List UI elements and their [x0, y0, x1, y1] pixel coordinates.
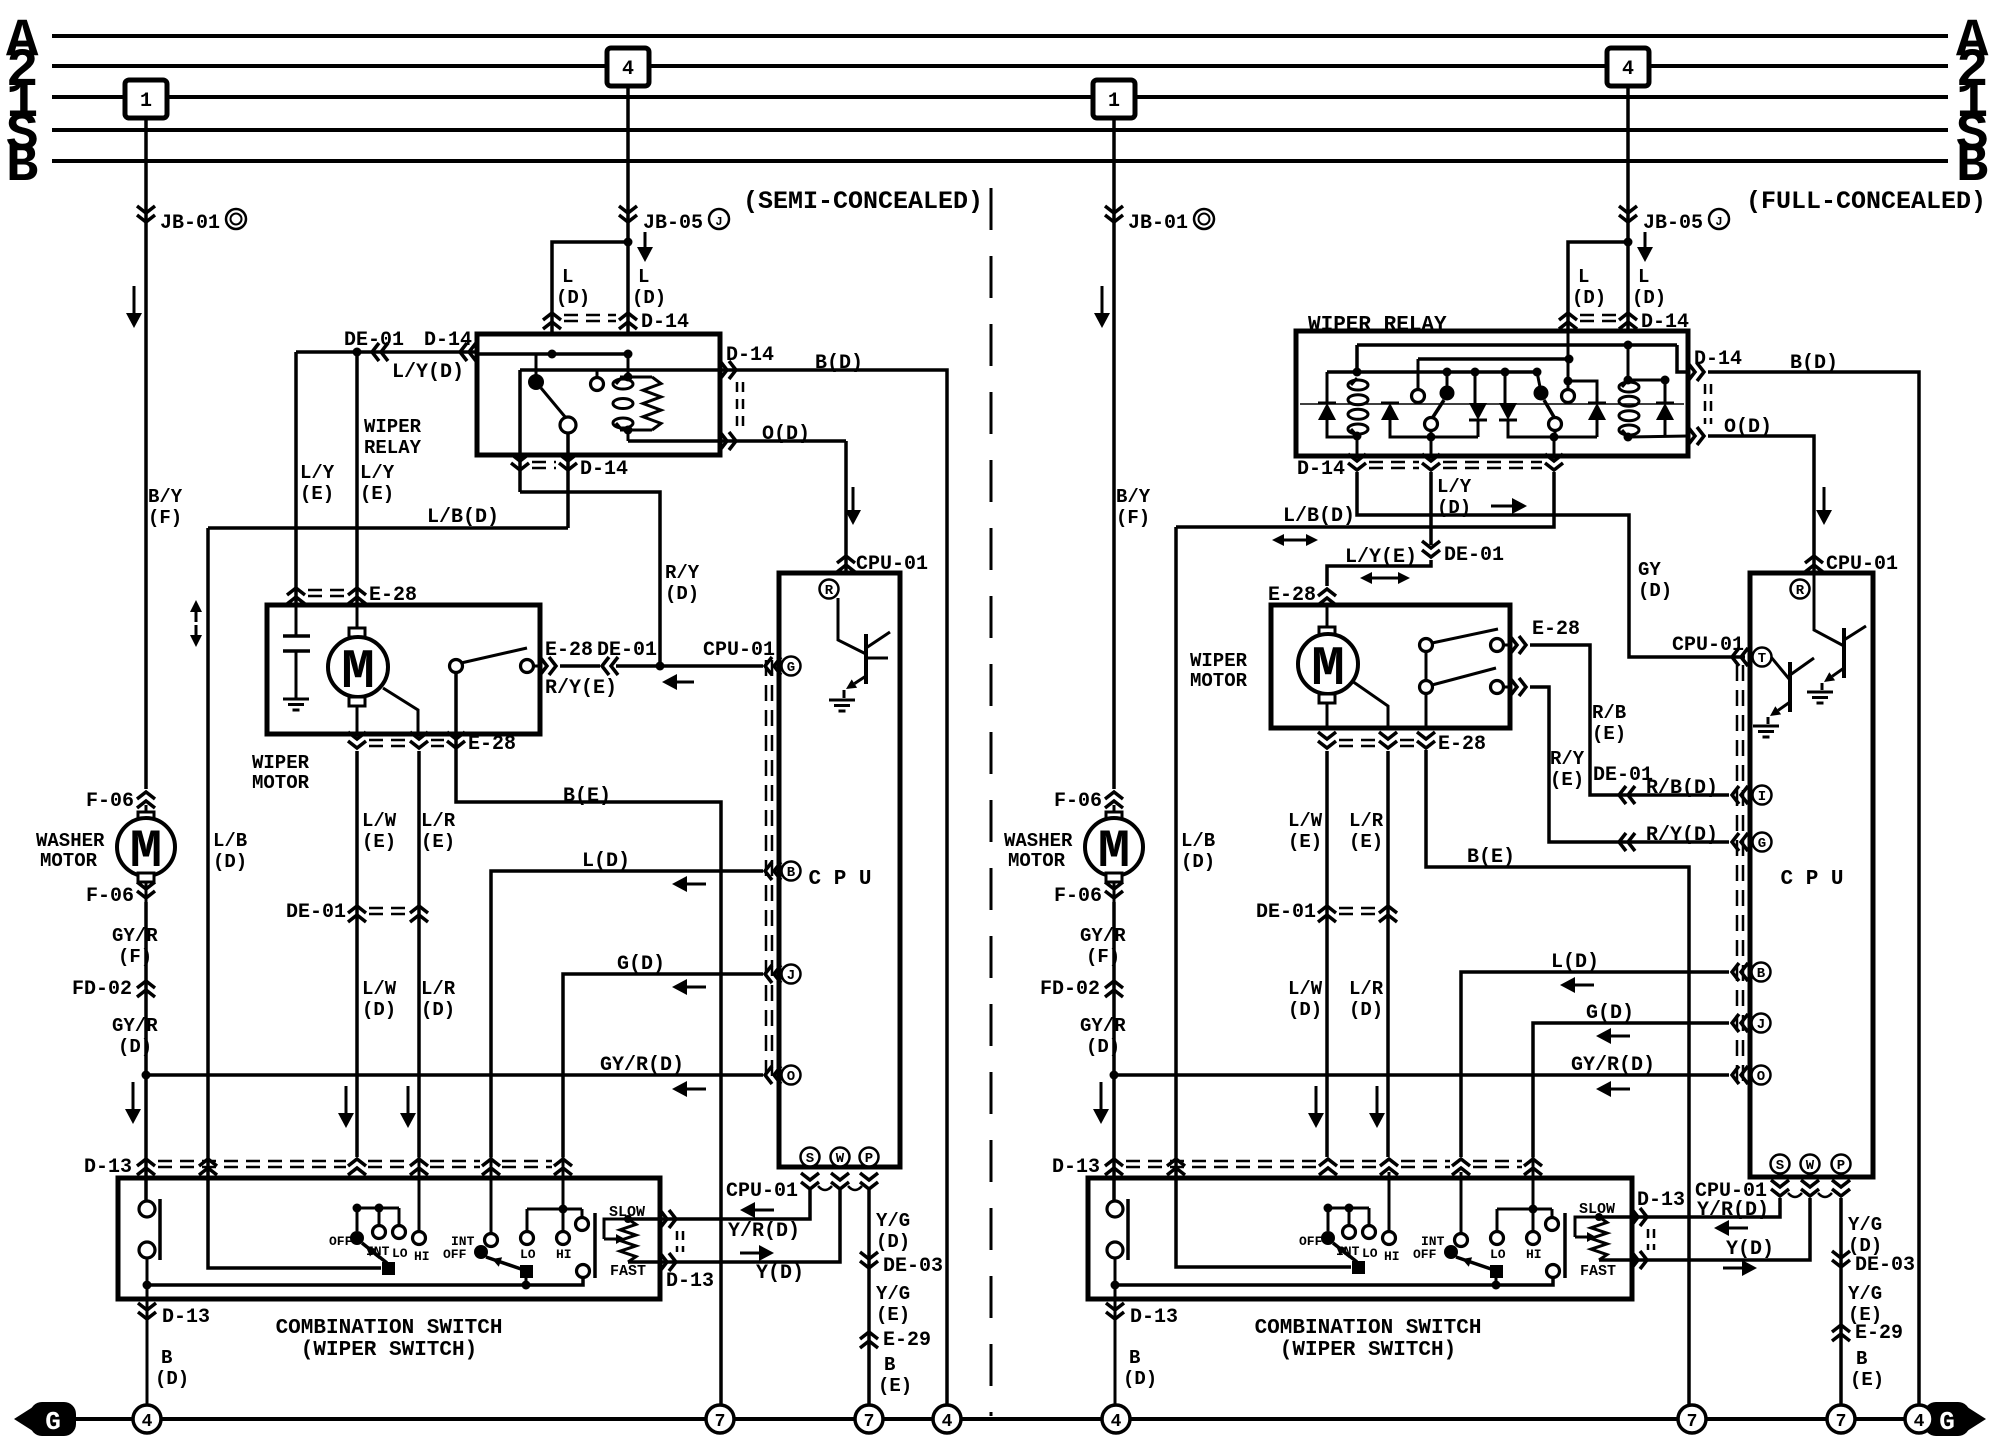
wire G(D) right	[1533, 1023, 1729, 1157]
svg-text:F-06: F-06	[86, 790, 134, 813]
svg-text:COMBINATION SWITCH: COMBINATION SWITCH	[1255, 1317, 1482, 1340]
wire O(D) right to CPU	[1708, 436, 1814, 573]
relay right line3	[1327, 370, 1537, 374]
svg-text:FD-02: FD-02	[1040, 978, 1100, 1001]
svg-text:(D): (D)	[1638, 580, 1672, 602]
svg-text:LO: LO	[392, 1246, 408, 1261]
connector CPU-01 chevrons I pin	[1732, 786, 1739, 804]
ground transistor T1	[1753, 725, 1779, 728]
flow arrow L(D)	[687, 883, 706, 886]
connector E-29 left	[860, 1332, 878, 1339]
connector E-28 pole2	[1519, 678, 1526, 696]
connector D-13 right comb top	[1105, 1159, 1123, 1166]
connector D-14 top left relay	[543, 313, 561, 320]
relay right switch2 stub	[1537, 372, 1540, 387]
connector D-14 below right relay	[1348, 463, 1366, 470]
svg-text:Y/G: Y/G	[876, 1283, 910, 1305]
motor tap diagonal right	[1352, 681, 1388, 728]
relay right L wire down	[1567, 332, 1570, 359]
wire B(E) gang down	[1425, 693, 1428, 728]
park switch pole2 left contact right box	[1420, 681, 1433, 694]
svg-text:Y/G: Y/G	[1848, 1214, 1882, 1236]
wire GY/R down to D-13 right	[1112, 1075, 1116, 1201]
svg-text:F-06: F-06	[86, 885, 134, 908]
comb lower right contact group2 right	[1547, 1265, 1560, 1278]
comb power contact lower right	[1107, 1242, 1123, 1258]
harness dashed line CPU-01 right	[1736, 665, 1739, 1082]
svg-text:(D): (D)	[1181, 851, 1215, 873]
relay coil output stub	[627, 430, 630, 441]
svg-text:Y(D): Y(D)	[756, 1262, 804, 1285]
wire L/Y(E) from relay switch1	[1429, 472, 1433, 545]
svg-text:WIPER: WIPER	[1190, 650, 1248, 672]
relay switch output wire down	[566, 433, 570, 528]
svg-text:(F): (F)	[1116, 507, 1150, 529]
svg-text:GY/R(D): GY/R(D)	[1571, 1054, 1655, 1077]
flow arrow washer lower right	[1100, 1082, 1103, 1109]
park switch pole1 left contact right box	[1420, 639, 1433, 652]
relay coil left	[624, 373, 633, 382]
svg-text:JB-05: JB-05	[643, 212, 703, 235]
junction L(D) branch left	[624, 238, 633, 247]
svg-text:FAST: FAST	[1580, 1263, 1616, 1280]
svg-text:1: 1	[1108, 90, 1120, 113]
svg-text:O: O	[787, 1069, 795, 1085]
flow arrow L/R right	[1376, 1086, 1379, 1113]
connector D-14 chevrons O(D) right	[1697, 427, 1704, 445]
svg-text:B(E): B(E)	[1467, 846, 1515, 869]
bus line A	[52, 34, 1948, 38]
relay right coil2	[1622, 380, 1628, 387]
relay right line3 junctions	[1353, 368, 1362, 377]
group1 HI contact right	[1388, 1172, 1391, 1231]
junction washer GY/R right	[1110, 1071, 1119, 1080]
connector CPU-01 chevrons T pin	[1732, 648, 1739, 666]
connector D-13 chevrons Y right	[1640, 1251, 1647, 1269]
diode D1 right relay	[1318, 403, 1336, 420]
group1 LO contact	[393, 1226, 406, 1239]
rail node 4 at x=147	[133, 1405, 161, 1433]
svg-text:E-28: E-28	[468, 733, 516, 756]
pin B right CPU	[1752, 963, 1771, 982]
svg-text:(E): (E)	[1288, 831, 1322, 853]
diode D6 right relay	[1656, 403, 1674, 420]
relay B(D) internal wire	[520, 368, 720, 372]
svg-text:L/B: L/B	[1181, 830, 1215, 852]
svg-text:J: J	[715, 215, 722, 229]
svg-text:F-06: F-06	[1054, 790, 1102, 813]
svg-text:B: B	[1129, 1347, 1140, 1369]
svg-text:L/W: L/W	[362, 810, 397, 832]
svg-text:FAST: FAST	[610, 1263, 646, 1280]
wiper motor box left	[267, 605, 540, 734]
wire O(D) inside relay	[628, 439, 720, 443]
svg-text:DE-01: DE-01	[286, 901, 346, 924]
flow arrow left on R/Y wire	[677, 681, 694, 684]
svg-text:(F): (F)	[118, 946, 152, 968]
wire GY(D) from relay coil1	[1357, 472, 1745, 657]
diode D2 right relay	[1381, 403, 1399, 420]
svg-text:L/W: L/W	[362, 978, 397, 1000]
svg-text:MOTOR: MOTOR	[252, 772, 310, 794]
ground symbol left	[14, 1405, 36, 1433]
connector JB-05 right	[1619, 215, 1637, 222]
svg-text:E-29: E-29	[883, 1329, 931, 1352]
diode D5 right relay	[1588, 403, 1606, 420]
connector E-28 bottom left	[348, 741, 366, 748]
relay internal top wire	[477, 352, 628, 356]
relay right switch1 stub	[1446, 372, 1449, 387]
connector D-14 below left relay	[511, 463, 529, 470]
connector JB-01	[137, 215, 155, 222]
svg-text:R: R	[1796, 583, 1805, 599]
combination switch box right	[1088, 1178, 1632, 1299]
svg-text:Y/R(D): Y/R(D)	[728, 1220, 800, 1243]
flow arrow G(D)	[687, 986, 706, 989]
svg-text:B/Y: B/Y	[1116, 486, 1151, 508]
svg-text:B: B	[161, 1347, 172, 1369]
svg-text:S: S	[806, 1151, 814, 1167]
group2 bracket	[562, 1157, 565, 1209]
harness dashed line CPU-01 left	[765, 660, 768, 1082]
svg-text:(D): (D)	[118, 1036, 152, 1058]
svg-text:D-14: D-14	[1297, 458, 1345, 481]
flow arrow down JB-05 left	[644, 232, 647, 247]
svg-text:G(D): G(D)	[617, 953, 665, 976]
relay right switch2 fixed	[1549, 418, 1562, 431]
svg-text:(D): (D)	[556, 287, 590, 309]
connector D-14 chevrons on wire into relay	[460, 343, 467, 361]
comb internal bus wire	[147, 1277, 583, 1285]
dashed link D-13 right of comb	[676, 1231, 679, 1252]
relay right bottom seg1	[1327, 420, 1357, 437]
relay right switch2 contact	[1534, 386, 1549, 401]
flow arrow G(D) right	[1611, 1035, 1630, 1038]
connector D-13 left comb top	[137, 1159, 155, 1166]
wire GY/R(F) down	[144, 902, 148, 1075]
wire DE-01 to relay	[296, 350, 477, 354]
flow arrow Y left	[740, 1252, 759, 1255]
group2 upper right contact	[576, 1218, 589, 1231]
svg-text:Y/R(D): Y/R(D)	[1697, 1199, 1769, 1222]
wire L/B to blade tip	[208, 1157, 381, 1268]
svg-text:(E): (E)	[1550, 769, 1584, 791]
connector E-28 top right	[1318, 589, 1336, 596]
wire B/Y(F) right from connector 1	[1112, 118, 1116, 789]
connector DE-03 right	[1832, 1260, 1850, 1267]
svg-text:J: J	[1757, 1017, 1765, 1033]
svg-text:C P U: C P U	[1780, 868, 1843, 891]
group1 INT contact right	[1343, 1226, 1356, 1239]
svg-text:L/Y(E): L/Y(E)	[1345, 546, 1417, 569]
pin O left CPU	[782, 1066, 801, 1085]
svg-text:(D): (D)	[1349, 999, 1383, 1021]
group1 OFF wire	[356, 1208, 359, 1231]
connector CPU-01 bottom right	[1771, 1189, 1789, 1196]
group1 HI contact	[418, 1157, 421, 1231]
svg-text:GY: GY	[1638, 559, 1661, 581]
pin G right CPU	[1753, 833, 1772, 852]
pin I right CPU	[1753, 786, 1772, 805]
svg-text:(D): (D)	[632, 287, 666, 309]
wire L/W(E) down	[355, 751, 359, 1157]
svg-text:DE-01: DE-01	[344, 329, 404, 352]
intermittent resistor left	[620, 1219, 636, 1262]
svg-text:CPU-01: CPU-01	[856, 553, 928, 576]
svg-text:(D): (D)	[1437, 497, 1471, 519]
connector D-13 below comb right	[1106, 1312, 1124, 1319]
wire pole1 to box edge	[1503, 644, 1510, 647]
svg-text:(D): (D)	[1086, 1036, 1120, 1058]
svg-text:CPU-01: CPU-01	[726, 1180, 798, 1203]
relay right NC contact 1	[1412, 390, 1425, 403]
group2 INT contact right	[1455, 1234, 1468, 1247]
svg-text:4: 4	[1111, 1412, 1122, 1432]
wiper relay box left	[477, 334, 720, 455]
svg-text:7: 7	[864, 1412, 875, 1432]
svg-text:INT: INT	[1336, 1244, 1360, 1259]
svg-text:D-13: D-13	[1637, 1189, 1685, 1212]
connector CPU-01 top left	[837, 556, 855, 563]
group2 LO contact right	[1491, 1232, 1504, 1245]
flow arrow down O(D)	[852, 487, 855, 510]
svg-text:(D): (D)	[362, 999, 396, 1021]
svg-text:7: 7	[715, 1412, 726, 1432]
dashed link D-14 right of relay	[736, 382, 739, 430]
relay right D4 stub	[1504, 372, 1507, 403]
wire L/R(E) down	[417, 751, 421, 1157]
wire B/Y(F) from connector 1 down	[144, 118, 148, 789]
svg-text:MOTOR: MOTOR	[1190, 670, 1248, 692]
svg-text:Y/G: Y/G	[1848, 1283, 1882, 1305]
svg-text:B: B	[1757, 966, 1766, 982]
wire O(D) down to CPU	[844, 441, 848, 573]
svg-text:WIPER RELAY: WIPER RELAY	[1308, 314, 1447, 337]
pin P right CPU	[1832, 1155, 1851, 1174]
connector JB-05 left	[619, 215, 637, 222]
wire L(D) branch to relay left pin	[552, 242, 628, 334]
group2 OFF contact right	[1444, 1245, 1458, 1259]
svg-text:D-14: D-14	[641, 311, 689, 334]
svg-text:R/B(D): R/B(D)	[1646, 777, 1718, 800]
flow arrow down B/Y right	[1101, 286, 1104, 313]
dashed link D-14 right relay output	[1704, 384, 1707, 424]
connector D-14 chevrons on B(D)	[729, 361, 736, 379]
svg-text:M: M	[341, 640, 375, 704]
svg-text:E-28: E-28	[1438, 733, 1486, 756]
svg-text:HI: HI	[556, 1247, 572, 1262]
wire L/B(D) from relay switch2	[1176, 472, 1554, 527]
group1 feed junction	[353, 1204, 362, 1213]
pin P left CPU	[860, 1148, 879, 1167]
transistor left CPU	[838, 598, 866, 654]
rail node 7 at x=1692	[1678, 1405, 1706, 1433]
svg-text:T: T	[1758, 651, 1766, 667]
svg-text:MOTOR: MOTOR	[1008, 850, 1066, 872]
svg-text:4: 4	[1914, 1412, 1925, 1432]
wire R/Y(D) from relay	[520, 492, 660, 666]
svg-text:B: B	[787, 865, 796, 881]
relay right link to D5	[1568, 381, 1597, 403]
flow arrow Y right	[1723, 1267, 1742, 1270]
svg-text:E-28: E-28	[1532, 618, 1580, 641]
svg-text:(D): (D)	[1288, 999, 1322, 1021]
bus line 1	[52, 95, 1948, 99]
group2 upper right contact right	[1546, 1218, 1559, 1231]
svg-text:(D): (D)	[1572, 287, 1606, 309]
relay right coil1	[1353, 432, 1362, 441]
wire R/Y(D)	[1530, 687, 1729, 842]
park switch gang link	[1425, 651, 1428, 681]
wiper relay box right	[1296, 331, 1688, 456]
rail node 7 at x=720	[706, 1405, 734, 1433]
park switch pole1 fixed contact	[1491, 639, 1504, 652]
svg-text:DE-03: DE-03	[1855, 1254, 1915, 1277]
connector CPU-01 top right	[1805, 556, 1823, 563]
connector box 1	[125, 80, 167, 118]
park switch right contact	[521, 660, 534, 673]
bus line B	[52, 159, 1948, 163]
rail node 7 at x=869	[855, 1405, 883, 1433]
relay right line2 corner to contact	[1417, 359, 1420, 389]
comb power contact lower	[139, 1242, 155, 1258]
svg-text:L/R: L/R	[1349, 810, 1384, 832]
connector E-28 top left	[287, 588, 305, 595]
connector DE-01 left motor wires	[348, 906, 366, 913]
svg-text:OFF: OFF	[1413, 1247, 1437, 1262]
comb power contact upper right	[1113, 1172, 1116, 1201]
svg-text:LO: LO	[1490, 1247, 1506, 1262]
rail node 4 at x=1919	[1905, 1405, 1933, 1433]
svg-text:R/Y: R/Y	[665, 562, 700, 584]
capacitor left	[295, 605, 298, 636]
pin W left CPU	[831, 1148, 850, 1167]
relay right switch1 blade	[1433, 400, 1444, 417]
bus line S	[52, 128, 1948, 132]
svg-text:OFF: OFF	[443, 1247, 467, 1262]
flow arrow down on B/Y wire	[133, 286, 136, 313]
svg-text:4: 4	[942, 1412, 953, 1432]
svg-text:INT: INT	[366, 1244, 390, 1259]
connector DE-01 on R/B	[1619, 786, 1626, 804]
svg-text:L/R: L/R	[421, 810, 456, 832]
svg-text:GY/R: GY/R	[112, 1015, 158, 1037]
svg-text:R/B: R/B	[1592, 702, 1626, 724]
svg-text:D-13: D-13	[1130, 1306, 1178, 1329]
transistor T1 right CPU	[1771, 657, 1790, 680]
wire L/W from motor	[356, 706, 359, 734]
svg-text:J: J	[787, 968, 795, 984]
wire L/B(D) vertical right	[1174, 527, 1178, 1157]
connector CPU-01 chevrons J pin right	[1732, 1014, 1739, 1032]
group1 LO contact right	[1363, 1226, 1376, 1239]
svg-text:L/Y: L/Y	[360, 462, 395, 484]
svg-text:B: B	[884, 1354, 895, 1376]
svg-text:(D): (D)	[1632, 287, 1666, 309]
double arrow L/Y(E) right	[1372, 577, 1385, 580]
connector D-13 chevrons Y	[669, 1253, 676, 1271]
svg-text:GY/R: GY/R	[112, 925, 158, 947]
svg-text:S: S	[1776, 1158, 1784, 1174]
double arrow on L/B wire	[195, 612, 198, 622]
wire Y(D) FAST to W pin	[628, 1190, 840, 1262]
svg-text:D-14: D-14	[726, 344, 774, 367]
svg-text:1: 1	[140, 90, 152, 113]
svg-text:(E): (E)	[360, 483, 394, 505]
group1 OFF contact	[350, 1231, 364, 1245]
svg-text:M: M	[1311, 637, 1345, 701]
wire Y/R(D) right to S pin	[1599, 1198, 1780, 1217]
junction comb bus right end	[1111, 1281, 1120, 1290]
svg-text:L/B(D): L/B(D)	[1283, 505, 1355, 528]
svg-text:(E): (E)	[362, 831, 396, 853]
wire R/Y(E) to junction	[616, 664, 763, 668]
relay right coil2 feed	[1627, 345, 1630, 380]
svg-text:G(D): G(D)	[1586, 1002, 1634, 1025]
group1 bracket	[357, 1207, 399, 1210]
group2 INT wire right	[1460, 1172, 1463, 1233]
svg-text:B: B	[6, 136, 38, 197]
svg-text:COMBINATION SWITCH: COMBINATION SWITCH	[276, 1317, 503, 1340]
svg-text:GY/R: GY/R	[1080, 925, 1126, 947]
wire park switch to box edge	[533, 665, 540, 668]
flow arrow Y/R left	[755, 1209, 774, 1212]
wire GY/R(D) right	[1114, 1073, 1729, 1077]
comb internal bus right	[1115, 1277, 1553, 1285]
svg-text:L: L	[1578, 266, 1589, 288]
park switch left contact	[450, 660, 463, 673]
wiper motor box right	[1271, 605, 1510, 728]
svg-text:I: I	[1758, 789, 1766, 805]
bus line 2	[52, 64, 1948, 68]
wire L(D)	[491, 871, 763, 1157]
connector D-13 chevrons Y/R right	[1640, 1208, 1647, 1226]
group1 blade	[362, 1243, 387, 1263]
svg-text:(D): (D)	[665, 583, 699, 605]
motor armature tap diagonal	[383, 688, 418, 734]
svg-text:JB-01: JB-01	[1128, 212, 1188, 235]
diode D4 right relay	[1499, 403, 1517, 420]
svg-text:L/R: L/R	[1349, 978, 1384, 1000]
group2 OFF contact	[474, 1245, 488, 1259]
group2 INT contact	[485, 1234, 498, 1247]
pin W right CPU	[1801, 1155, 1820, 1174]
wire Y/G P pin down right	[1839, 1198, 1843, 1406]
connector DE-01 right motor wires	[1318, 906, 1336, 913]
rail node 7 at x=1841	[1827, 1405, 1855, 1433]
relay right D3 stub	[1474, 372, 1477, 403]
wire L/R(E) down right	[1386, 751, 1390, 1157]
svg-text:JB-05: JB-05	[1643, 212, 1703, 235]
svg-text:WIPER: WIPER	[252, 752, 310, 774]
CPU box left	[779, 573, 900, 1167]
connector E-28 pole1	[1519, 636, 1526, 654]
connector F-06 top right	[1105, 792, 1123, 799]
pin T right CPU	[1753, 648, 1772, 667]
relay NC drop wire to R/Y	[518, 370, 522, 492]
relay right bus1	[1357, 343, 1677, 347]
connector E-28 on R/Y(E) wire	[549, 657, 556, 675]
relay right bus1 left corner to coil1	[1355, 345, 1359, 373]
pin S left CPU	[801, 1148, 820, 1167]
park switch blade left	[461, 648, 527, 663]
relay coil feed	[627, 354, 630, 377]
svg-text:WASHER: WASHER	[1004, 830, 1073, 852]
svg-text:E-29: E-29	[1855, 1322, 1903, 1345]
svg-text:DE-01: DE-01	[1593, 764, 1653, 787]
rail node 4 at x=947	[933, 1405, 961, 1433]
junction group2 bus right	[1492, 1281, 1501, 1290]
